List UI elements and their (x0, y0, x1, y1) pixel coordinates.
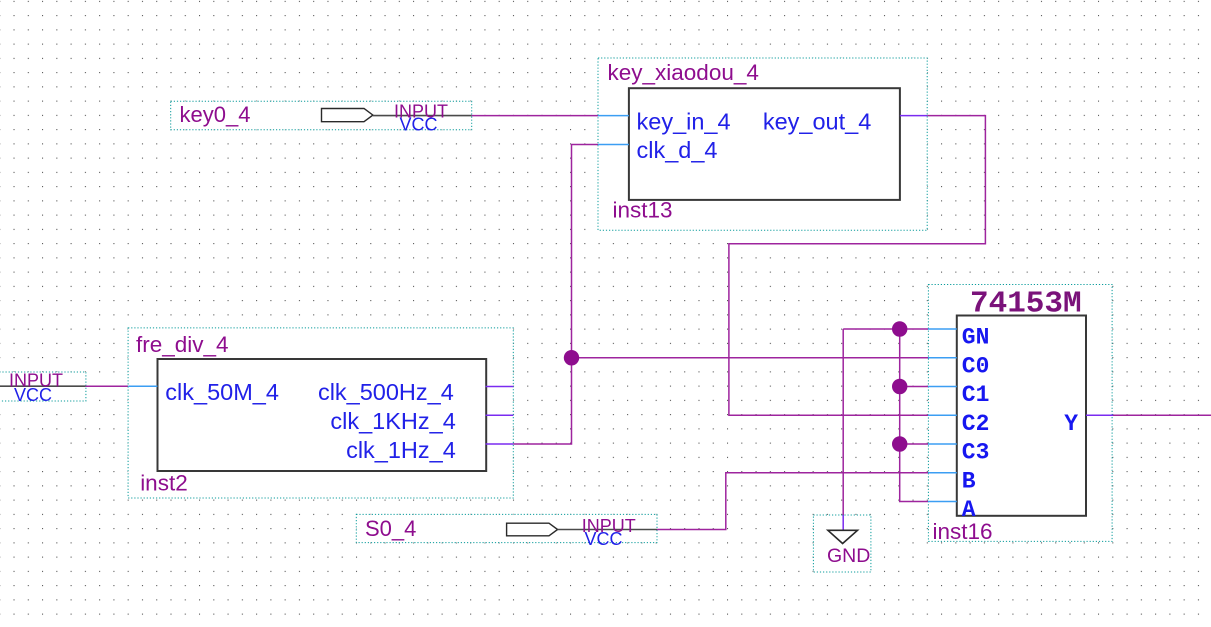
block fre_div_4 (inst2) (128, 328, 513, 498)
wire: key_out_4 to C2 (729, 116, 986, 416)
svg-text:clk_500Hz_4: clk_500Hz_4 (318, 379, 454, 405)
pin stub GN (928, 328, 957, 330)
svg-text:GND: GND (827, 545, 870, 567)
svg-text:S0_4: S0_4 (365, 516, 416, 541)
pin stub key_in_4 (598, 115, 629, 117)
input pin S0_4 (356, 514, 657, 549)
svg-text:clk_1Hz_4: clk_1Hz_4 (346, 437, 456, 463)
junction node clk_d/clk_1Hz/C0 (564, 350, 579, 365)
svg-text:C0: C0 (962, 353, 990, 379)
wire: Y output (1113, 414, 1211, 416)
pin stub clk_1KHz_4 (486, 414, 514, 416)
wire: GN net (843, 328, 928, 330)
svg-text:74153M: 74153M (970, 286, 1082, 321)
pin stub key_out_4 (900, 115, 927, 117)
block 74153M (inst16) (928, 285, 1113, 545)
svg-text:B: B (962, 468, 976, 494)
pin stub clk_50M_4 (129, 385, 158, 387)
input pin (clk 50M, left edge) (0, 371, 86, 406)
ground GND (813, 515, 871, 572)
block key_xiaodou_4 (inst13) (598, 58, 927, 230)
pin stub clk_d_4 (598, 144, 629, 146)
svg-text:clk_50M_4: clk_50M_4 (165, 379, 279, 405)
junction node C1 (892, 379, 907, 394)
svg-text:key_xiaodou_4: key_xiaodou_4 (608, 60, 759, 85)
wire: S0_4 to B (657, 473, 928, 530)
wire: gnd bus vertical GN-A (900, 329, 928, 502)
wire: key0_4 to key_in_4 (472, 115, 598, 117)
wire: clk_50M net (86, 385, 129, 387)
svg-text:C1: C1 (962, 382, 990, 408)
input pin key0_4 (171, 101, 472, 134)
svg-text:VCC: VCC (585, 529, 623, 549)
svg-text:C2: C2 (962, 411, 990, 437)
svg-text:A: A (962, 497, 976, 523)
pin stub C0 (928, 357, 957, 359)
svg-text:Y: Y (1064, 411, 1078, 437)
svg-text:inst13: inst13 (613, 198, 673, 223)
pin stub C2 (928, 414, 957, 416)
svg-text:VCC: VCC (14, 385, 52, 405)
pin stub Y (1086, 414, 1113, 416)
svg-text:clk_1KHz_4: clk_1KHz_4 (330, 408, 455, 434)
svg-text:fre_div_4: fre_div_4 (136, 332, 229, 357)
svg-text:C3: C3 (962, 440, 990, 466)
wire: GND riser (842, 329, 844, 515)
svg-text:GN: GN (962, 325, 990, 351)
svg-text:key_out_4: key_out_4 (763, 108, 871, 134)
junction node GN (892, 321, 907, 336)
pin stub A (928, 501, 957, 503)
wire: clk_d_4 net (up from junction) (572, 145, 599, 358)
wire: C0 net (junction to C0) (572, 357, 929, 359)
svg-text:clk_d_4: clk_d_4 (637, 137, 718, 163)
pin stub clk_500Hz_4 (486, 386, 514, 388)
wire: clk_1Hz_4 to junction (513, 358, 571, 444)
svg-text:key_in_4: key_in_4 (637, 108, 731, 134)
svg-text:VCC: VCC (400, 115, 438, 135)
pin stub clk_1Hz_4 (486, 443, 514, 445)
wire: C3 net (900, 443, 928, 445)
pin stub B (928, 472, 957, 474)
svg-text:key0_4: key0_4 (180, 102, 251, 127)
svg-text:inst2: inst2 (140, 470, 188, 495)
pin stub C1 (928, 386, 957, 388)
pin stub C3 (928, 443, 957, 445)
junction node C3 (892, 436, 907, 451)
wire: C1 net (900, 386, 928, 388)
